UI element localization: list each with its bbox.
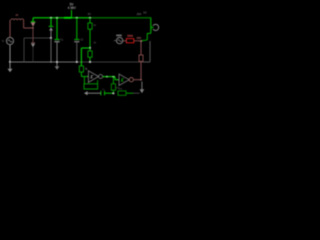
resistor R2	[88, 48, 92, 62]
wire U2 output	[133, 79, 141, 81]
resistor R5 vertical	[111, 77, 115, 94]
wire ground bus right	[77, 61, 150, 63]
feedback resistor box R4	[84, 77, 98, 90]
gate U1 schmitt inverter	[88, 71, 102, 83]
top rail wire right dim	[90, 17, 151, 19]
diode D2	[31, 43, 35, 47]
AC source V1	[6, 37, 13, 44]
LED1 top right	[151, 18, 159, 34]
ground	[8, 62, 13, 72]
junction	[32, 27, 34, 29]
svg-text:5V: 5V	[88, 13, 91, 16]
wire source bottom	[9, 45, 11, 62]
capacitor C3	[101, 91, 114, 96]
svg-text:V: V	[2, 39, 4, 43]
ground at U2 output	[140, 82, 145, 94]
label V2	[116, 35, 122, 37]
junction	[50, 17, 52, 19]
junction	[89, 61, 91, 63]
resistor R7 horizontal	[123, 39, 141, 43]
top rail wire	[33, 17, 90, 19]
ground at C1	[55, 62, 60, 70]
ground left arrow	[84, 91, 100, 95]
diode D1	[31, 18, 36, 28]
diode D3	[49, 18, 54, 31]
junction	[50, 37, 52, 39]
resistor R4 vertical	[139, 41, 143, 61]
label node	[137, 37, 141, 39]
wire U1 output	[103, 76, 115, 78]
junction	[112, 92, 114, 94]
wire ground bus left	[10, 61, 77, 63]
inductor L1	[11, 19, 24, 20]
wire to D1 anode	[24, 27, 33, 29]
junction	[50, 61, 52, 63]
wire jog to U2	[115, 77, 119, 80]
wire dark return net	[24, 38, 51, 62]
label L1	[16, 14, 19, 16]
junction	[9, 61, 11, 63]
wire U2 output column up	[140, 61, 142, 79]
wire source top to coil	[9, 20, 11, 37]
svg-text:4.98V: 4.98V	[68, 6, 77, 10]
wire D1 anode down	[32, 28, 34, 42]
junction	[56, 17, 58, 19]
wire D2 cathode down	[32, 47, 34, 62]
source V2	[114, 37, 123, 43]
resistor R1	[88, 17, 92, 48]
wire ground bus corner up	[149, 41, 151, 62]
node label +5V	[68, 3, 77, 18]
rail bright segment	[64, 17, 72, 19]
wire coil right down	[23, 20, 25, 28]
capacitor C1	[54, 18, 59, 62]
wire D3 down	[50, 31, 52, 38]
label R7	[127, 35, 133, 37]
wire LED1 cathode jog	[142, 33, 151, 40]
resistor R6 horizontal	[118, 91, 126, 95]
wire divider tap	[81, 48, 90, 66]
junction divider	[89, 47, 91, 49]
wire R5h chain to ground arrow	[126, 92, 140, 94]
svg-text:.29A: .29A	[136, 12, 142, 16]
wire D3 to bus	[50, 38, 52, 62]
gate U2 schmitt inverter	[119, 74, 133, 86]
junction	[140, 40, 142, 42]
junction	[76, 61, 78, 63]
resistor R3	[79, 66, 88, 77]
junction	[106, 76, 108, 78]
capacitor C2	[74, 18, 79, 62]
